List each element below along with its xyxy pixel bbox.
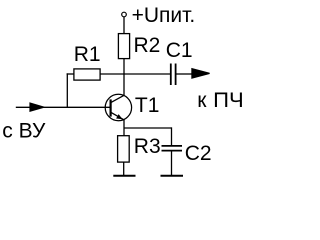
wire input branch vertical bbox=[66, 73, 68, 107]
capacitor C1 right plate bbox=[175, 64, 177, 86]
svg-text:+Uпит.: +Uпит. bbox=[132, 4, 196, 27]
svg-text:ПЧ: ПЧ bbox=[213, 89, 244, 112]
transistor T1 circle bbox=[105, 94, 131, 120]
resistor R1 bbox=[74, 69, 100, 80]
transistor T1 base bar bbox=[109, 99, 111, 116]
wire C2 bottom to ground bbox=[171, 151, 173, 176]
wire terminal to R2 bbox=[123, 17, 125, 34]
wire emitter vertical to R3 bbox=[123, 120, 125, 136]
power terminal circle bbox=[122, 12, 127, 17]
wire collector vertical bbox=[123, 73, 125, 95]
output arrow bbox=[191, 68, 209, 79]
ground under C2 bbox=[161, 175, 184, 177]
capacitor C1 left plate bbox=[170, 64, 172, 86]
svg-text:C2: C2 bbox=[185, 142, 212, 165]
node A horizontal rail R1 to C1 bbox=[100, 73, 171, 75]
svg-text:к: к bbox=[197, 89, 207, 112]
input arrow bbox=[29, 102, 44, 112]
svg-text:R1: R1 bbox=[74, 43, 101, 66]
wire C2 vertical top bbox=[171, 127, 173, 146]
transistor T1 emitter line bbox=[111, 112, 125, 120]
transistor T1 emitter arrowhead bbox=[116, 114, 123, 119]
resistor R3 bbox=[118, 136, 130, 162]
svg-text:Т1: Т1 bbox=[135, 94, 160, 117]
wire C1 to output arrow bbox=[176, 73, 192, 75]
wire emitter node to C2 horizontal bbox=[124, 127, 172, 129]
wire R2 bottom to node A bbox=[123, 59, 125, 75]
transistor T1 collector line bbox=[111, 95, 125, 103]
resistor R2 bbox=[118, 34, 129, 59]
svg-text:R2: R2 bbox=[134, 34, 161, 57]
capacitor C2 bottom plate bbox=[162, 150, 183, 152]
svg-text:R3: R3 bbox=[134, 135, 161, 158]
ground under R3 bbox=[113, 175, 135, 177]
svg-text:C1: C1 bbox=[166, 39, 193, 62]
capacitor C2 top plate bbox=[162, 145, 183, 147]
wire R1 left stub bbox=[67, 73, 74, 75]
wire R3 bottom to ground bbox=[123, 162, 125, 176]
svg-text:с ВУ: с ВУ bbox=[2, 120, 46, 143]
wire input horizontal bbox=[16, 106, 110, 108]
